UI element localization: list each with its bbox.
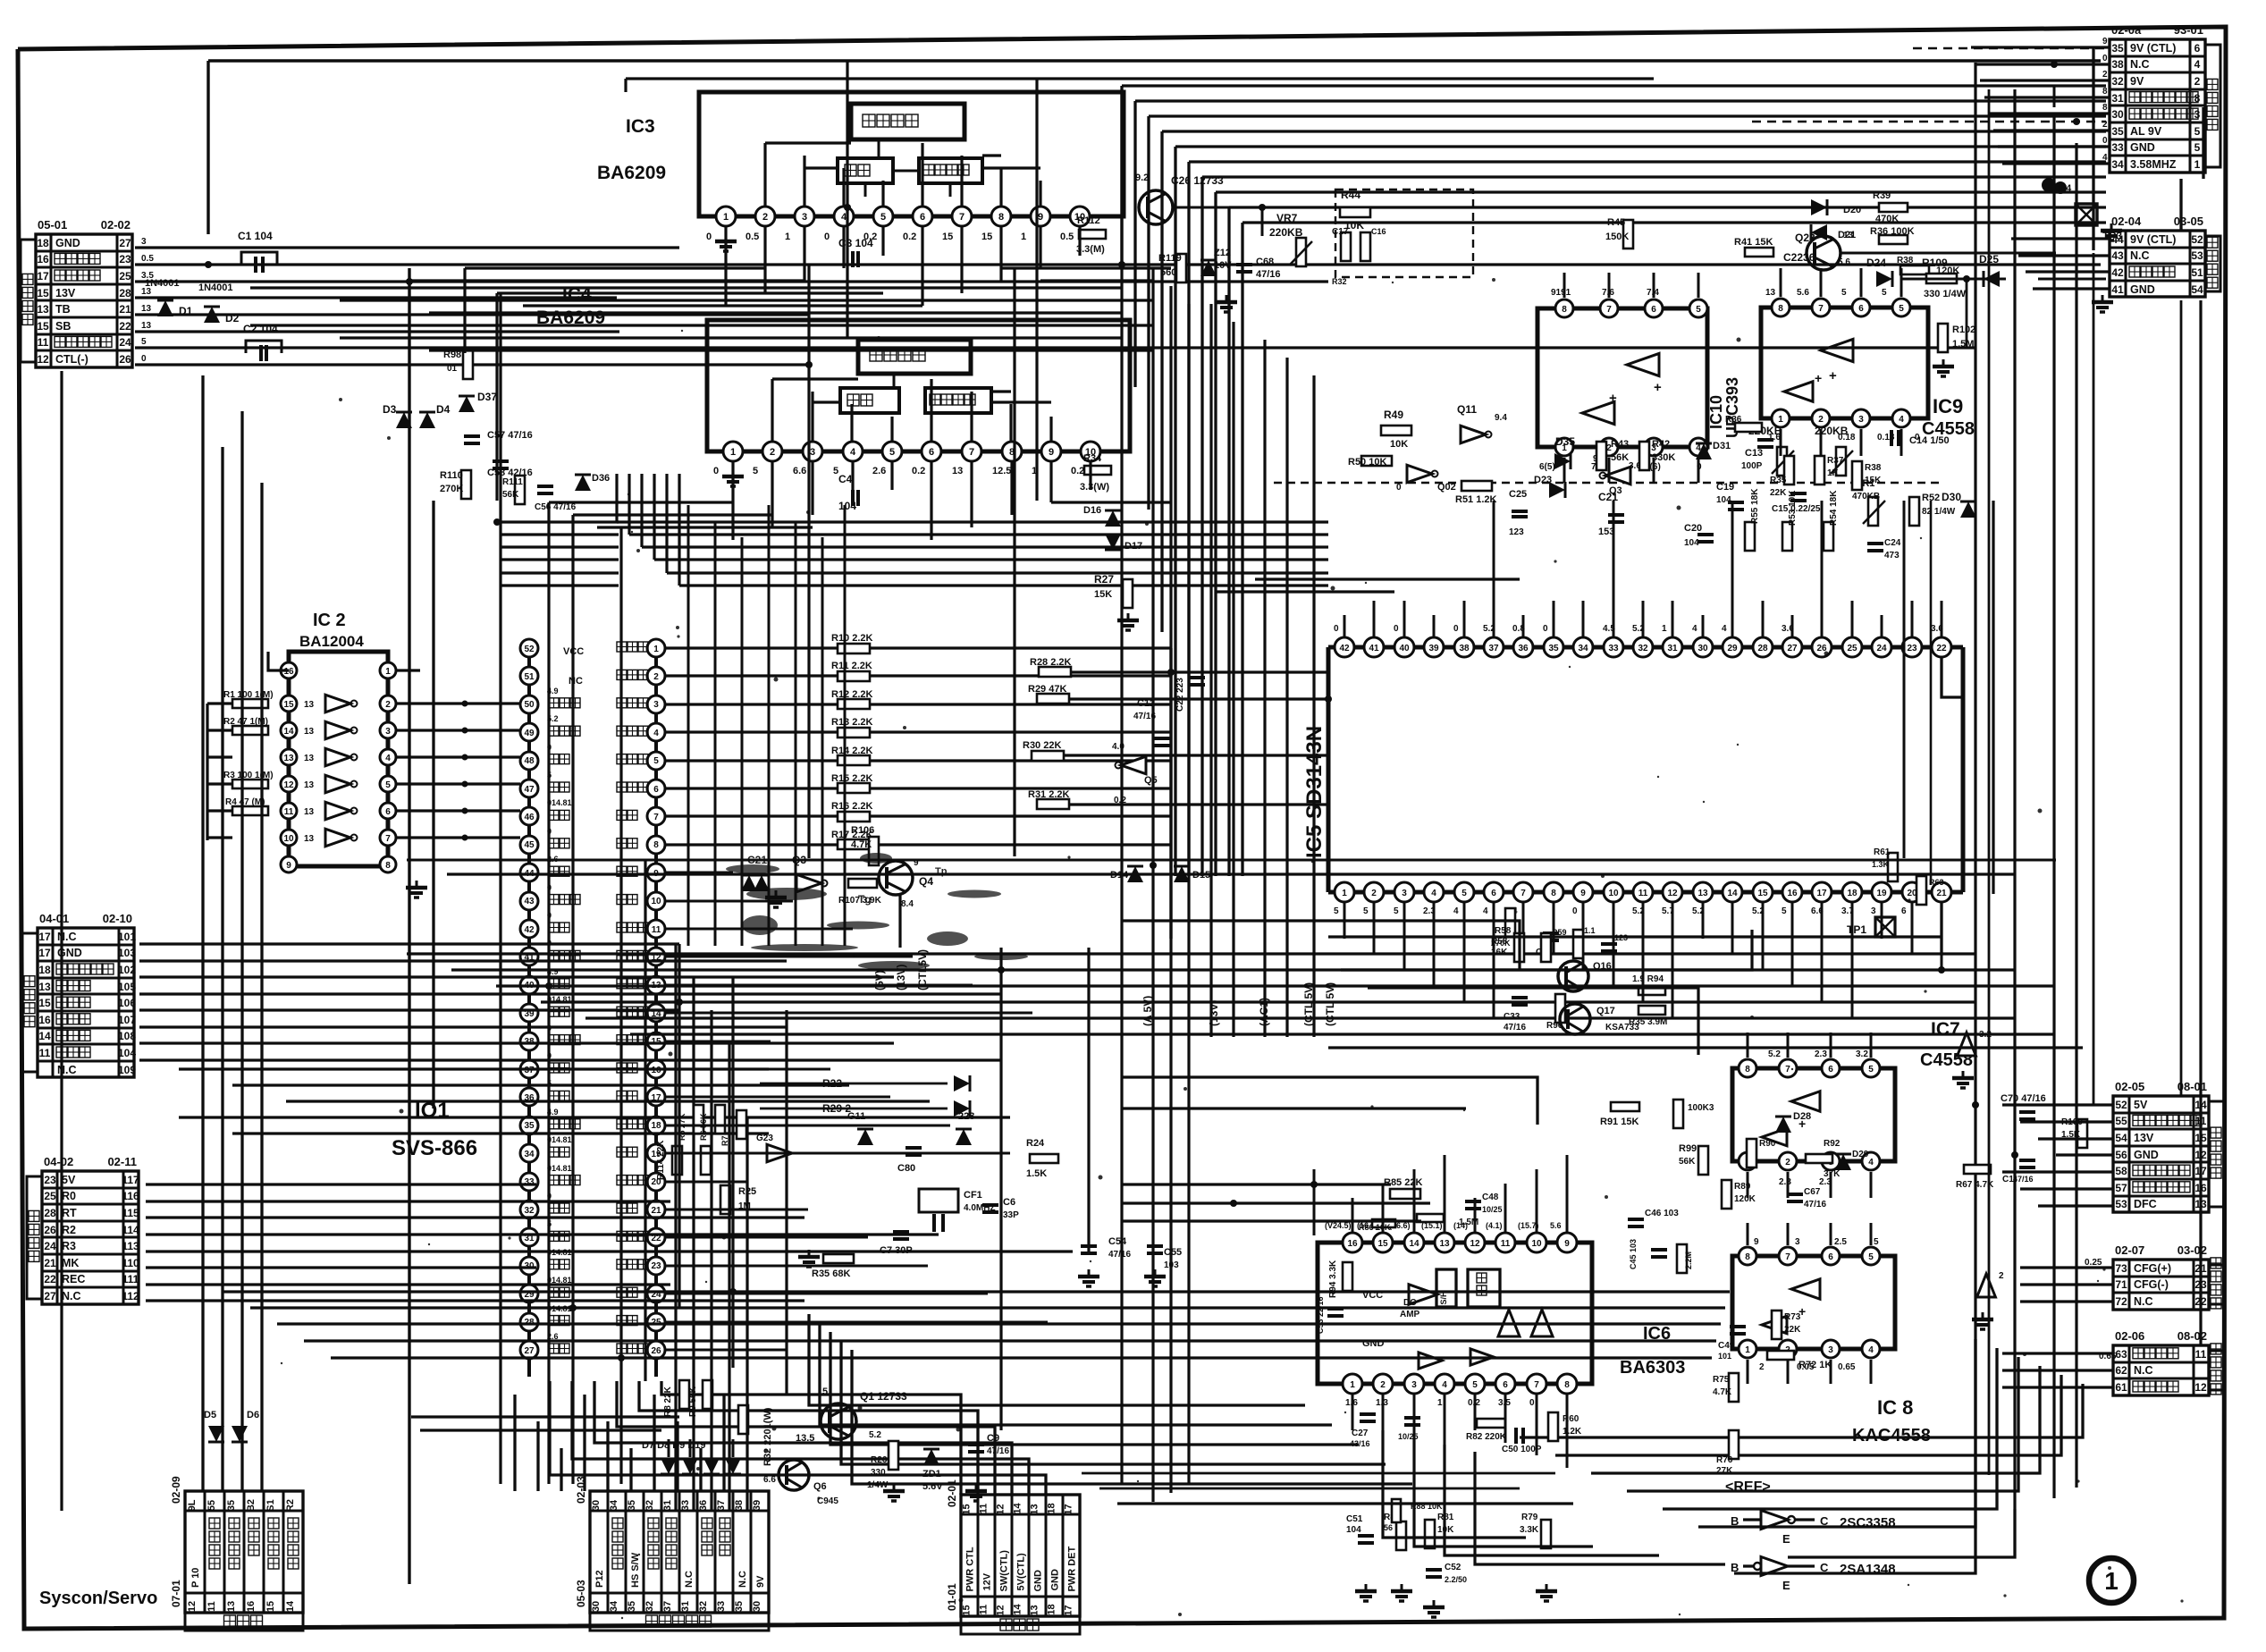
- svg-text:R44: R44: [1341, 189, 1360, 201]
- svg-text:12.5: 12.5: [992, 466, 1011, 476]
- svg-text:C56 47/16: C56 47/16: [535, 502, 577, 512]
- svg-text:R2: R2: [285, 1499, 296, 1512]
- svg-text:BA12004: BA12004: [299, 633, 364, 650]
- svg-text:13V: 13V: [55, 287, 76, 299]
- svg-text:12V: 12V: [982, 1572, 993, 1590]
- svg-text:07-01: 07-01: [170, 1580, 182, 1607]
- svg-text:109: 109: [118, 1064, 136, 1076]
- resistor R89: [1722, 1180, 1756, 1209]
- svg-text:56: 56: [1384, 1523, 1393, 1532]
- svg-text:330 1/4W: 330 1/4W: [1924, 289, 1967, 299]
- inverter Q11: [1457, 403, 1507, 443]
- resistor R90: [1747, 1139, 1776, 1167]
- capacitor C7: [880, 1232, 913, 1256]
- resistor R115: [701, 1146, 711, 1175]
- svg-text:0: 0: [2102, 136, 2108, 146]
- svg-text:RT: RT: [62, 1207, 77, 1219]
- svg-text:36: 36: [698, 1500, 709, 1511]
- svg-text:2: 2: [1759, 1362, 1765, 1372]
- transistor Q1: [796, 1386, 907, 1444]
- svg-text:0.5: 0.5: [746, 232, 759, 242]
- svg-text:22K: 22K: [1770, 488, 1787, 498]
- svg-text:0.2: 0.2: [912, 466, 925, 476]
- svg-text:13: 13: [1697, 889, 1708, 898]
- svg-text:+: +: [1815, 371, 1822, 385]
- svg-text:37: 37: [1488, 644, 1499, 653]
- svg-text:BA6303: BA6303: [1620, 1358, 1685, 1378]
- connector table 02-06/08-02: [2113, 1329, 2224, 1395]
- svg-text:R42: R42: [1652, 439, 1670, 450]
- svg-text:7: 7: [1785, 1252, 1790, 1262]
- svg-text:36: 36: [1518, 644, 1529, 653]
- svg-text:C6: C6: [1003, 1197, 1015, 1208]
- wire IC3 pin4 drop: [846, 268, 848, 338]
- svg-text:33: 33: [2111, 141, 2124, 154]
- dashed nets: [1274, 48, 2108, 483]
- svg-text:13: 13: [1439, 1239, 1450, 1249]
- diode D25: [1979, 253, 2000, 287]
- svg-text:31: 31: [680, 1601, 691, 1612]
- svg-text:58: 58: [2115, 1165, 2127, 1177]
- op-amp IC7 C4558: [1732, 1019, 1973, 1187]
- svg-text:5: 5: [889, 447, 895, 458]
- svg-text:10K: 10K: [1390, 439, 1408, 450]
- svg-text:13: 13: [1030, 1605, 1040, 1615]
- wire IC1 right rows lower: [665, 872, 1048, 1350]
- svg-text:R3 100 1(M): R3 100 1(M): [223, 771, 274, 780]
- ground Q26: [1216, 295, 1237, 312]
- diode D24: [1866, 257, 1892, 287]
- svg-text:31: 31: [2111, 92, 2124, 105]
- svg-text:REC: REC: [62, 1273, 85, 1285]
- svg-text:03-05: 03-05: [2174, 215, 2203, 228]
- svg-text:48: 48: [524, 756, 535, 766]
- svg-text:33: 33: [716, 1601, 727, 1612]
- svg-text:2: 2: [1380, 1380, 1386, 1390]
- svg-text:1K: 1K: [1827, 468, 1840, 478]
- wire T1 row nets: [135, 237, 2101, 365]
- svg-text:02-02: 02-02: [101, 218, 131, 232]
- svg-text:27: 27: [44, 1290, 56, 1302]
- svg-text:4: 4: [1692, 624, 1697, 634]
- capacitor C39: [1601, 933, 1628, 951]
- svg-text:4: 4: [1431, 889, 1436, 898]
- svg-text:02-11: 02-11: [107, 1155, 137, 1168]
- diode D1: [145, 278, 193, 317]
- svg-text:17: 17: [1064, 1605, 1074, 1615]
- wire IC5 bottom stubs: [1344, 903, 1942, 1019]
- svg-text:R28 2.2K: R28 2.2K: [1030, 657, 1072, 668]
- svg-text:D7 D8 D9 D19: D7 D8 D9 D19: [642, 1440, 706, 1451]
- diode D31: [1696, 441, 1731, 459]
- svg-text:11: 11: [652, 925, 661, 935]
- svg-text:R39: R39: [1873, 190, 1891, 201]
- svg-text:2: 2: [385, 700, 391, 710]
- svg-text:47/16: 47/16: [2013, 1175, 2034, 1184]
- resistor R52: [1909, 493, 1956, 526]
- svg-text:R27: R27: [1094, 573, 1114, 586]
- capacitor C22: [1175, 678, 1205, 712]
- resistor R73: [1772, 1311, 1801, 1339]
- svg-text:32: 32: [2111, 75, 2124, 88]
- svg-text:C33: C33: [1504, 1012, 1520, 1022]
- svg-text:D35: D35: [1555, 435, 1575, 448]
- svg-text:02-09: 02-09: [170, 1476, 182, 1504]
- svg-text:43: 43: [524, 897, 535, 906]
- svg-text:1: 1: [1437, 1398, 1443, 1408]
- svg-text:KAC4558: KAC4558: [1852, 1426, 1931, 1445]
- resistor R95: [1632, 974, 1665, 995]
- capacitor C17: [1332, 227, 1351, 286]
- svg-text:N.C: N.C: [57, 1064, 77, 1076]
- capacitor C80: [897, 1148, 922, 1174]
- svg-text:5: 5: [822, 1386, 828, 1397]
- svg-text:28: 28: [1757, 644, 1768, 653]
- svg-text:104: 104: [1346, 1525, 1361, 1535]
- resistor R112: [1076, 215, 1106, 255]
- svg-text:R36 100K: R36 100K: [1870, 226, 1915, 237]
- svg-text:+: +: [1609, 391, 1617, 406]
- diode D2: [198, 282, 240, 324]
- svg-text:9.2: 9.2: [1135, 173, 1149, 183]
- capacitor C13: [1741, 440, 1773, 471]
- svg-text:8: 8: [998, 212, 1004, 223]
- wire IC2 routes: [207, 652, 520, 841]
- resistor R6: [699, 1105, 725, 1141]
- capacitor C25: [1509, 489, 1528, 537]
- svg-text:29: 29: [1727, 644, 1738, 653]
- svg-text:6: 6: [1901, 906, 1907, 916]
- svg-text:4: 4: [653, 729, 659, 738]
- svg-text:D16: D16: [1083, 505, 1101, 516]
- svg-text:2: 2: [770, 447, 775, 458]
- wire IC3-IC4 gap bus: [250, 288, 1153, 350]
- svg-text:13: 13: [304, 780, 315, 790]
- resistor R81: [1425, 1513, 1454, 1548]
- svg-text:10: 10: [651, 897, 661, 906]
- svg-text:17: 17: [38, 947, 51, 959]
- svg-text:73: 73: [2115, 1262, 2127, 1275]
- resistor R86: [1359, 1219, 1395, 1232]
- svg-text:Q17: Q17: [1596, 1006, 1615, 1016]
- svg-text:R1 100 1(M): R1 100 1(M): [223, 690, 274, 700]
- resistor R76c: [1716, 1430, 1739, 1476]
- svg-text:0.65: 0.65: [1838, 1362, 1856, 1372]
- svg-text:C46 103: C46 103: [1645, 1209, 1679, 1218]
- svg-text:11: 11: [2195, 1348, 2207, 1361]
- ground right mid: [1952, 1071, 1993, 1329]
- svg-text:42: 42: [524, 925, 535, 935]
- svg-text:R41 15K: R41 15K: [1734, 237, 1773, 248]
- pot VR1: [1852, 478, 1885, 526]
- svg-text:52: 52: [2115, 1099, 2127, 1111]
- svg-text:1: 1: [723, 212, 729, 223]
- svg-text:14: 14: [285, 1600, 296, 1612]
- svg-text:R90: R90: [1759, 1139, 1776, 1149]
- diode D35: [1554, 435, 1575, 469]
- svg-text:13V: 13V: [2134, 1132, 2154, 1144]
- svg-text:SB: SB: [55, 320, 71, 333]
- svg-text:IC 8: IC 8: [1877, 1396, 1913, 1419]
- resistor R106: [851, 825, 879, 865]
- svg-text:BA6209: BA6209: [597, 163, 666, 183]
- connector table 04-02/02-11: [27, 1155, 139, 1304]
- svg-text:116: 116: [122, 1190, 139, 1202]
- svg-text:5: 5: [1882, 288, 1887, 298]
- svg-text:4: 4: [1722, 624, 1727, 634]
- svg-text:R45: R45: [1607, 217, 1625, 228]
- svg-text:4: 4: [2194, 58, 2201, 71]
- svg-text:(13V): (13V): [1208, 1000, 1220, 1026]
- op-amp IC9 C4558: [1761, 288, 1975, 442]
- svg-text:7: 7: [1785, 1065, 1790, 1075]
- connector table 04-01/02-10: [22, 912, 136, 1077]
- resistor R119: [1158, 253, 1186, 282]
- diode D20: [1811, 199, 1861, 215]
- svg-text:104: 104: [1716, 495, 1731, 505]
- resistor R72: [1767, 1351, 1832, 1370]
- svg-text:R35 68K: R35 68K: [812, 1268, 850, 1279]
- resistor R3: [223, 771, 274, 788]
- resistor R98: [443, 350, 473, 379]
- svg-text:33P: 33P: [1003, 1210, 1019, 1220]
- svg-text:P 10: P 10: [190, 1568, 201, 1588]
- svg-text:SVS-866: SVS-866: [392, 1136, 477, 1160]
- svg-text:R12 2.2K: R12 2.2K: [831, 689, 873, 700]
- svg-text:17: 17: [1816, 889, 1827, 898]
- svg-text:08-02: 08-02: [2178, 1329, 2207, 1343]
- svg-text:R85 22K: R85 22K: [1384, 1177, 1422, 1188]
- svg-text:47/16: 47/16: [987, 1446, 1009, 1456]
- connector table 02-03/05-03 (bottom mid-left): [575, 1476, 769, 1631]
- svg-text:56K: 56K: [502, 490, 519, 500]
- svg-text:D4: D4: [436, 403, 451, 416]
- svg-text:30: 30: [591, 1500, 602, 1511]
- svg-text:R32: R32: [1332, 277, 1347, 286]
- svg-text:7: 7: [1534, 1380, 1539, 1390]
- svg-text:2.2/50: 2.2/50: [1445, 1575, 1467, 1584]
- capacitor C48: [1465, 1193, 1503, 1214]
- svg-text:5: 5: [653, 756, 659, 766]
- svg-text:C24: C24: [1884, 538, 1901, 548]
- svg-text:R16 2.2K: R16 2.2K: [831, 801, 873, 812]
- svg-text:C17: C17: [1332, 227, 1349, 237]
- svg-text:11: 11: [39, 1047, 51, 1059]
- svg-text:GND: GND: [2130, 141, 2155, 154]
- svg-text:12: 12: [1470, 1239, 1480, 1249]
- svg-text:14: 14: [1013, 1604, 1023, 1615]
- svg-text:9: 9: [1754, 1237, 1759, 1247]
- resistor R5: [678, 1105, 703, 1141]
- svg-text:47/16: 47/16: [1804, 1200, 1826, 1209]
- svg-text:CF1: CF1: [964, 1190, 982, 1201]
- svg-text:IC10: IC10: [1707, 395, 1725, 429]
- svg-text:9V: 9V: [2130, 75, 2144, 88]
- svg-text:6: 6: [1828, 1252, 1833, 1262]
- ground right-top: [2054, 181, 2122, 240]
- resistor R100: [2061, 1117, 2087, 1148]
- svg-text:103: 103: [1164, 1260, 1179, 1270]
- svg-text:27: 27: [1787, 644, 1798, 653]
- svg-text:R61: R61: [1874, 847, 1891, 857]
- svg-text:26: 26: [651, 1346, 661, 1356]
- svg-text:Q6: Q6: [813, 1481, 827, 1492]
- svg-text:2.2M: 2.2M: [1684, 1252, 1693, 1269]
- svg-text:13: 13: [304, 807, 315, 817]
- svg-text:R35: R35: [1770, 476, 1787, 485]
- svg-text:34: 34: [1578, 644, 1588, 653]
- svg-text:VR7: VR7: [1276, 212, 1298, 224]
- svg-text:21: 21: [44, 1257, 56, 1269]
- resistor R88: [1392, 1499, 1443, 1522]
- svg-text:17: 17: [1064, 1504, 1074, 1514]
- capacitor C21: [1598, 491, 1624, 537]
- svg-text:15: 15: [962, 1504, 973, 1514]
- diode D37: [459, 391, 497, 412]
- resistor R4: [225, 797, 268, 815]
- svg-text:27: 27: [119, 237, 131, 249]
- microcontroller IC1 SVS-866: [392, 638, 665, 1377]
- svg-text:R32 2201(W): R32 2201(W): [762, 1407, 773, 1466]
- svg-text:7: 7: [1606, 305, 1612, 315]
- svg-text:11: 11: [1638, 889, 1648, 898]
- IC1 right pin labels: [617, 642, 648, 1353]
- svg-text:(4.1): (4.1): [1486, 1221, 1503, 1230]
- svg-text:R37: R37: [1827, 456, 1844, 466]
- resistor R42: [1639, 439, 1675, 470]
- capacitor C58: [487, 461, 533, 478]
- svg-text:R86 10K: R86 10K: [1359, 1223, 1391, 1232]
- pot 220KB a: [1748, 425, 1794, 476]
- svg-text:6: 6: [1828, 1065, 1833, 1075]
- svg-text:111: 111: [122, 1273, 139, 1285]
- svg-text:12: 12: [37, 353, 49, 366]
- svg-text:16: 16: [38, 1014, 51, 1026]
- svg-text:C9: C9: [987, 1433, 999, 1444]
- svg-text:4: 4: [1868, 1345, 1874, 1355]
- svg-text:470K: 470K: [1875, 214, 1899, 224]
- capacitor C46: [1628, 1209, 1679, 1226]
- resistor R63: [1916, 876, 1944, 905]
- svg-text:25: 25: [44, 1190, 56, 1202]
- diode D17: [1105, 534, 1142, 552]
- resistor R87: [1417, 1214, 1478, 1227]
- svg-text:R76: R76: [1716, 1455, 1733, 1465]
- wire R22 lines: [760, 1075, 970, 1117]
- svg-text:5.6: 5.6: [1797, 288, 1809, 298]
- svg-text:3: 3: [385, 727, 391, 737]
- svg-text:SW(CTL): SW(CTL): [999, 1550, 1010, 1592]
- svg-text:5: 5: [1696, 305, 1701, 315]
- svg-text:12: 12: [996, 1605, 1007, 1615]
- svg-text:23: 23: [44, 1174, 56, 1186]
- svg-text:8: 8: [1551, 889, 1556, 898]
- svg-text:R111: R111: [502, 477, 523, 487]
- svg-text:45: 45: [524, 840, 535, 850]
- svg-text:1.9 R94: 1.9 R94: [1632, 974, 1664, 984]
- svg-text:10/25: 10/25: [1482, 1205, 1503, 1214]
- svg-text:E: E: [1782, 1579, 1790, 1592]
- svg-text:GND: GND: [1050, 1569, 1061, 1591]
- svg-text:CFG(-): CFG(-): [2134, 1278, 2169, 1291]
- svg-text:41: 41: [2111, 283, 2124, 296]
- svg-text:52: 52: [2191, 233, 2203, 246]
- svg-text:E: E: [1782, 1532, 1790, 1546]
- svg-text:39: 39: [752, 1500, 762, 1511]
- svg-text:R30 22K: R30 22K: [1023, 740, 1061, 751]
- svg-text:S1: S1: [265, 1499, 276, 1511]
- svg-text:13: 13: [37, 303, 49, 316]
- svg-text:5: 5: [753, 466, 758, 476]
- svg-text:17: 17: [37, 270, 49, 282]
- svg-text:5V(CTL): 5V(CTL): [1016, 1553, 1027, 1591]
- svg-text:ZD1: ZD1: [922, 1469, 941, 1479]
- resistor network R10-R17: [665, 633, 1171, 939]
- svg-text:5V: 5V: [2134, 1099, 2148, 1111]
- svg-text:15K: 15K: [1094, 589, 1112, 600]
- resistor R35b: [1770, 456, 1794, 498]
- svg-text:13: 13: [141, 304, 152, 314]
- transistor Q4: [879, 858, 933, 909]
- svg-text:13: 13: [304, 754, 315, 763]
- svg-text:24: 24: [1876, 644, 1887, 653]
- svg-text:02-04: 02-04: [2111, 215, 2142, 228]
- svg-text:3: 3: [653, 700, 659, 710]
- wire IC4 internals: [772, 379, 1051, 442]
- svg-text:C57 47/16: C57 47/16: [487, 430, 533, 441]
- svg-text:02-07: 02-07: [2115, 1243, 2144, 1257]
- svg-text:+: +: [1654, 380, 1662, 395]
- resistor R37: [1815, 456, 1844, 485]
- svg-text:1.1: 1.1: [1584, 926, 1596, 935]
- svg-text:11: 11: [38, 336, 49, 349]
- transistor Q17: [1560, 1004, 1639, 1034]
- svg-text:8: 8: [1745, 1065, 1750, 1075]
- svg-text:37: 37: [716, 1500, 727, 1511]
- svg-text:C12: C12: [1137, 698, 1155, 709]
- resistor R58: [1491, 908, 1515, 957]
- svg-text:PWR CTL: PWR CTL: [965, 1547, 976, 1591]
- svg-text:9L: 9L: [187, 1499, 198, 1511]
- svg-text:8: 8: [2194, 92, 2201, 105]
- svg-text:02-0a: 02-0a: [2111, 23, 2142, 37]
- svg-text:15: 15: [1377, 1239, 1388, 1249]
- svg-text:32: 32: [698, 1601, 709, 1612]
- svg-text:C14 1/50: C14 1/50: [1909, 435, 1950, 446]
- resistor R92: [1806, 1139, 1841, 1179]
- svg-text:27K: 27K: [1716, 1466, 1733, 1476]
- wire IC4 pin routes: [549, 460, 1171, 1484]
- svg-text:15: 15: [283, 700, 294, 710]
- svg-text:TB: TB: [55, 303, 71, 316]
- wire top main bus: [208, 61, 2101, 234]
- ground crystal: [798, 1250, 820, 1267]
- svg-text:4: 4: [2102, 153, 2108, 163]
- blob right top: [2042, 178, 2072, 194]
- svg-text:6.6: 6.6: [763, 1475, 776, 1485]
- svg-text:D17: D17: [1125, 541, 1142, 552]
- resistor R53: [1782, 490, 1798, 551]
- connector table 02-01/01-01 (bottom center): [946, 1479, 1080, 1634]
- wire IC3 pin routes: [409, 225, 1171, 501]
- resistor R51: [1455, 481, 1497, 505]
- resistor R61: [1872, 847, 1898, 881]
- svg-text:C52: C52: [1445, 1563, 1462, 1572]
- capacitor C53: [1316, 1296, 1344, 1334]
- svg-text:0.5: 0.5: [141, 254, 154, 264]
- svg-text:6: 6: [1651, 305, 1656, 315]
- wire IC1-resistor verticals: [688, 505, 845, 946]
